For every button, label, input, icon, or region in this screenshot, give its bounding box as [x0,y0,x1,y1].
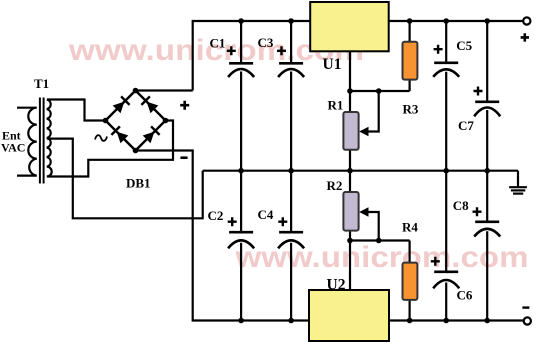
ac squiggle [95,135,107,141]
svg-text:C4: C4 [258,207,274,222]
capacitor C7 [458,87,500,134]
junction dots bottom rail [238,318,490,324]
capacitor C8 [453,198,500,237]
potentiometer R2 [327,178,369,231]
wire R1 bottom to 0V [349,150,351,171]
wire C1 C2 vertical [240,21,242,321]
diode D bottom-left [111,126,128,143]
transformer secondary winding [47,100,52,177]
node bridge right [163,118,169,124]
wire R3 bottom to adj node [409,80,411,91]
svg-text:C7: C7 [458,118,474,133]
node bridge bottom [133,148,139,154]
voltage regulator U1 box [310,2,389,51]
diode D top-right [141,96,158,113]
voltage regulator U2 box [309,290,389,341]
wire U1 adj pin down [349,51,351,91]
wire R2 bottom [349,231,351,241]
svg-text:C5: C5 [456,38,472,53]
label bridge minus [180,156,187,159]
wire bottom rail unregulated - [136,151,310,321]
wire C5 C6 vertical [445,21,447,321]
junction dots adj nodes [347,88,381,243]
wire R1 top [349,91,351,112]
bridge diamond wires [106,91,166,151]
bridge rectifier DB1 [95,88,189,191]
wire R2 wiper [364,212,379,241]
svg-text:U2: U2 [327,277,346,294]
node bridge left [103,118,109,124]
transformer primary winding [17,108,37,176]
junction dots top rail [238,18,490,24]
output terminal plus [521,17,531,41]
transformer T1 [1,76,52,184]
capacitor C2 [208,208,255,248]
svg-text:R3: R3 [403,102,419,117]
diode D bottom-right [143,126,160,143]
wire R1 wiper [364,91,379,132]
wire top rail unregulated + [193,21,311,91]
wire C3 C4 vertical [290,21,292,321]
wire R4 top to adj node [409,241,411,263]
svg-text:C3: C3 [258,35,274,50]
wire 0V rail [203,170,518,172]
svg-text:R4: R4 [402,220,418,235]
svg-text:VAC: VAC [1,141,25,155]
svg-text:T1: T1 [34,76,49,91]
diode D top-left [113,96,130,113]
wire transformer center tap to 0V rail [47,139,203,219]
node bridge top [133,88,139,94]
wire R3 top [409,21,411,42]
resistor R4 [402,220,418,300]
capacitor C6 [431,257,473,303]
transformer core lines [39,98,41,184]
wire transformer secondary bottom to bridge right corner [47,121,173,177]
wire top rail regulated + to output [389,20,523,22]
wire R2 top from 0V [349,171,351,192]
wire U2 adj pin up [349,241,351,291]
svg-text:C8: C8 [453,198,469,213]
capacitor C1 [210,36,255,78]
svg-text:C1: C1 [210,36,226,51]
svg-text:R2: R2 [327,178,343,193]
wire U1 adj node horizontal [350,90,410,92]
capacitor C3 [258,35,305,77]
capacitor C4 [258,207,305,248]
wire C7 C8 vertical [486,21,488,321]
wire bridge + corner to rail [136,89,193,91]
svg-text:C2: C2 [208,208,224,223]
svg-text:DB1: DB1 [126,176,151,191]
wire transformer secondary top to bridge left corner [47,100,106,121]
wire R4 bottom [409,300,411,321]
output terminal minus [522,308,531,325]
svg-text:U1: U1 [323,56,342,73]
resistor R3 [403,42,419,117]
svg-text:R1: R1 [328,97,344,112]
wire U2 adj node horizontal [350,239,410,241]
ground symbol [509,171,527,194]
potentiometer R1 [328,97,369,150]
svg-text:C6: C6 [457,288,473,303]
label bridge plus [180,101,189,110]
junction dots 0V rail [238,168,490,174]
wire bottom rail regulated - to output [389,319,523,321]
capacitor C5 [433,38,472,77]
